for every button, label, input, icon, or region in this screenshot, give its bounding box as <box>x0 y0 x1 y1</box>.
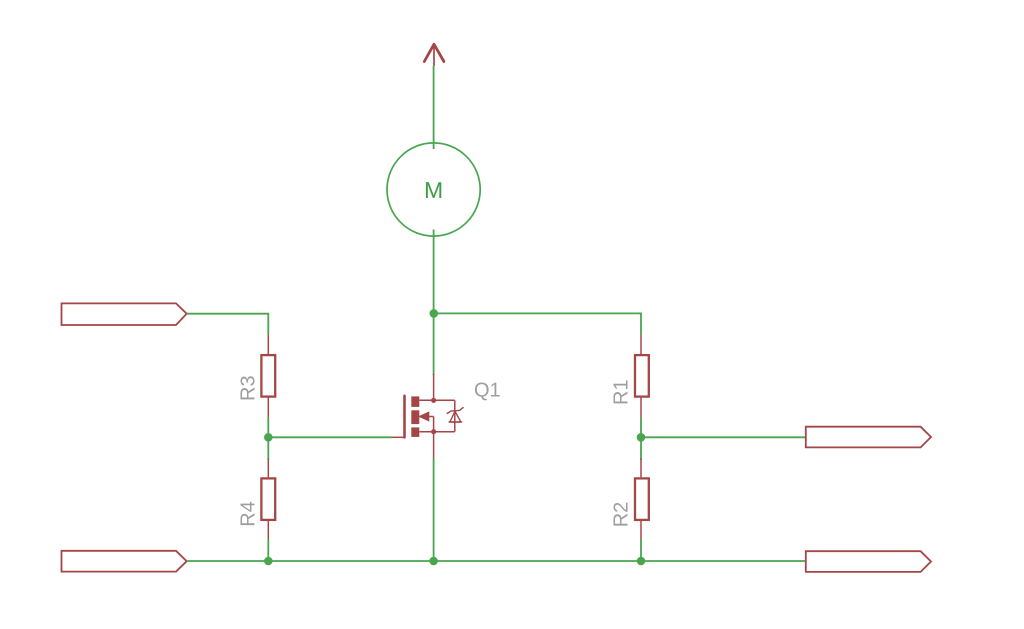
wire top rail node to R1 <box>434 313 641 334</box>
wire gate node to Q1 gate <box>268 436 392 438</box>
drain internal junction dot <box>431 398 436 403</box>
port IN1 top-left flag <box>62 303 187 325</box>
node gate junction <box>264 433 273 442</box>
svg-text:R2: R2 <box>611 502 633 528</box>
wire node down to Q1 drain <box>433 313 435 375</box>
source internal junction dot <box>431 429 436 434</box>
port GND bottom-left flag <box>62 551 187 572</box>
source horizontal <box>419 431 455 433</box>
node mid-right junction <box>637 433 646 442</box>
wire bottom rail <box>187 560 806 562</box>
gate pin <box>392 436 405 438</box>
wire R1 to mid node <box>640 418 642 438</box>
svg-text:R1: R1 <box>611 379 633 405</box>
wire mid node to right port <box>641 436 806 438</box>
svg-text:R4: R4 <box>238 501 260 527</box>
node bottom-left junction <box>264 557 273 566</box>
channel stub top <box>411 396 419 407</box>
drain horizontal to stub and diode <box>419 399 455 401</box>
wire motor to drain node <box>433 230 435 314</box>
channel stub bottom <box>411 427 419 437</box>
port OUT mid-right flag <box>806 427 931 448</box>
resistor R1 <box>611 335 649 418</box>
node bottom-center junction <box>429 557 438 566</box>
wire R3 to gate node <box>267 418 269 438</box>
body diode base bar <box>449 421 463 423</box>
bulk arrow <box>419 412 429 421</box>
channel stub middle <box>411 410 419 424</box>
node bottom-right junction <box>637 557 646 566</box>
source pin <box>433 432 435 458</box>
resistor R3 <box>238 335 276 418</box>
transistor Q1 n-mosfet <box>392 374 501 458</box>
gate plate <box>403 396 406 438</box>
body diode triangle <box>450 411 461 422</box>
motor M1 <box>387 143 480 236</box>
wire top-left port to R3 <box>187 314 269 335</box>
resistor R2 <box>611 437 649 561</box>
diode branch vertical <box>454 400 456 431</box>
port GND bottom-right flag <box>806 551 931 572</box>
drain pin <box>433 374 435 400</box>
wire VCC to motor <box>433 66 435 149</box>
node drain junction <box>430 309 439 318</box>
svg-text:R3: R3 <box>238 375 260 401</box>
svg-text:Q1: Q1 <box>474 380 501 402</box>
resistor R4 <box>238 437 276 561</box>
power symbol VCC arrow <box>424 44 444 66</box>
body diode cathode zener bar <box>447 408 463 414</box>
svg-text:M: M <box>424 177 443 203</box>
wire Q1 source to bottom rail <box>433 458 435 562</box>
